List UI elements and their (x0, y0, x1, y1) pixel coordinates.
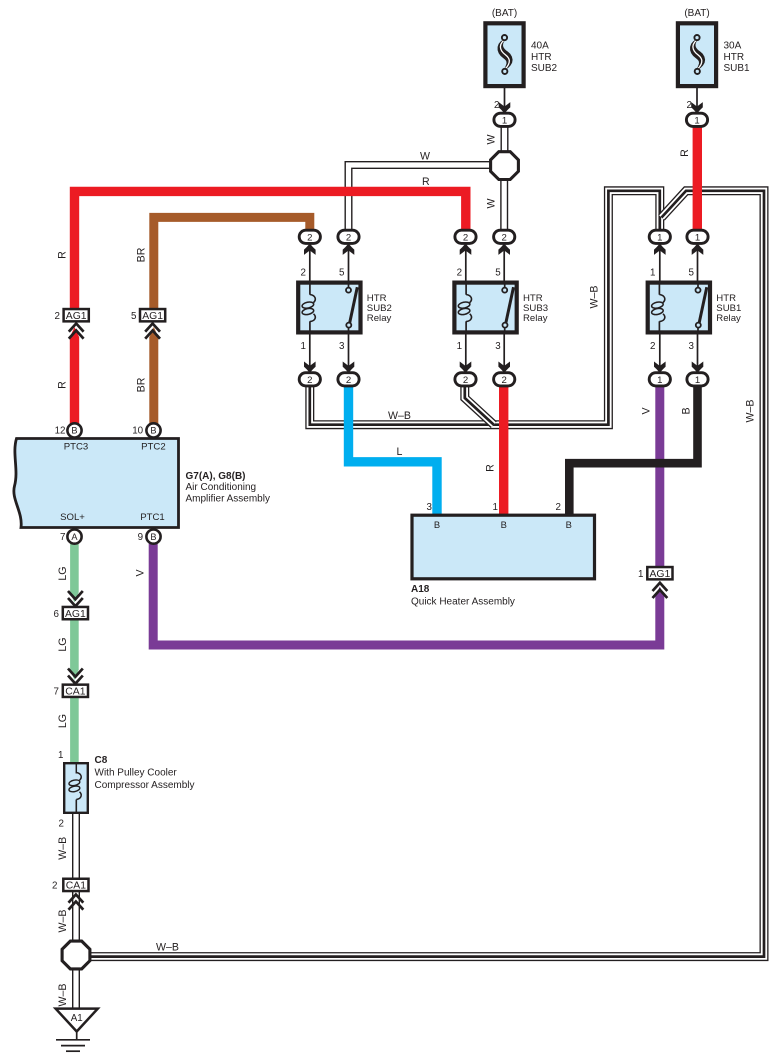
svg-text:W–B: W–B (745, 400, 757, 423)
relay SUB3 pin lead bottom (503, 334, 505, 373)
relay SUB3 pin lead top (503, 243, 505, 281)
svg-text:Amplifier Assembly: Amplifier Assembly (186, 494, 270, 505)
svg-text:CA1: CA1 (65, 687, 85, 698)
connector CA1 pin 2 (52, 879, 88, 892)
A/C amplifier assembly G7/G8 box (14, 439, 179, 528)
svg-text:W–B: W–B (57, 910, 69, 933)
svg-text:W–B: W–B (388, 410, 411, 422)
arrow relay SUB1 pin1 (655, 244, 666, 254)
svg-text:1: 1 (695, 232, 700, 243)
svg-text:W–B: W–B (156, 942, 179, 954)
arrow relay SUB3 pin5 (499, 244, 510, 254)
svg-text:SUB1: SUB1 (724, 63, 751, 74)
svg-text:1: 1 (694, 115, 699, 126)
svg-text:2: 2 (300, 267, 305, 278)
wire LG AG1 to CA1 connector (70, 619, 79, 670)
svg-text:PTC3: PTC3 (64, 442, 89, 453)
amplifier pin 12 (B) (67, 423, 81, 437)
connector AG1 pin 2 (55, 309, 89, 322)
chevron AG1 pin 5 (145, 324, 160, 339)
junction octagon ground (W-B) (62, 941, 90, 969)
svg-text:2: 2 (650, 341, 655, 352)
chevron CA1 pin 2 (69, 895, 84, 910)
svg-text:R: R (57, 381, 69, 389)
connector above relay SUB1 pin1 (649, 230, 670, 243)
svg-text:1: 1 (638, 569, 643, 580)
relay SUB1 pin lead bottom (697, 334, 699, 373)
svg-text:1: 1 (493, 502, 498, 513)
wire BR AG1 to relay SUB2 pin 2 (154, 217, 310, 309)
svg-text:Air Conditioning: Air Conditioning (186, 482, 257, 493)
svg-text:2: 2 (346, 232, 351, 243)
wire W-B compressor C8 to CA1 (72, 812, 80, 879)
arrow into fuse SUB2 connector (499, 103, 510, 113)
svg-text:A1: A1 (71, 1013, 83, 1024)
svg-text:AG1: AG1 (65, 609, 86, 620)
relay HTR SUB3 (454, 283, 516, 333)
connector below relay SUB3 pin3 (494, 373, 515, 386)
arrow relay SUB2 pin5 (343, 244, 354, 254)
chevron CA1 pin 7 (68, 669, 83, 684)
svg-text:1: 1 (695, 375, 700, 386)
svg-text:G7(A), G8(B): G7(A), G8(B) (186, 471, 246, 482)
relay SUB1 pin lead bottom (659, 334, 661, 373)
svg-text:10: 10 (132, 426, 143, 437)
wire W junction left branch to relay SUB2 pin 5 connector (349, 165, 493, 232)
wire L relay SUB2 pin 3 to quick heater pin 3 (349, 383, 438, 515)
amplifier pin 7 (A) (67, 530, 81, 544)
svg-text:3: 3 (495, 341, 501, 352)
fuse 30A HTR SUB1 (678, 23, 716, 86)
svg-text:R: R (422, 176, 430, 188)
connector 1 below fuse SUB2 (494, 113, 515, 126)
svg-text:(BAT): (BAT) (492, 8, 517, 19)
wire W junction down to relay SUB3 pin 5 connector (500, 178, 508, 232)
connector below relay SUB1 pin2 (649, 373, 670, 386)
wire LG CA1 to compressor C8 (70, 697, 79, 763)
svg-text:AG1: AG1 (66, 311, 87, 322)
relay SUB2 pin lead bottom (348, 334, 350, 373)
connector above relay SUB2 pin2 (299, 230, 320, 243)
arrow relay SUB3 pin3 bottom (499, 363, 510, 373)
svg-text:With Pulley Cooler: With Pulley Cooler (95, 768, 178, 779)
svg-text:(BAT): (BAT) (684, 8, 709, 19)
connector above relay SUB3 pin2 (455, 230, 476, 243)
svg-text:SUB2: SUB2 (531, 63, 558, 74)
compressor C8 box with coil (64, 762, 88, 813)
svg-text:2: 2 (502, 232, 507, 243)
relay HTR SUB1 (648, 283, 710, 333)
chevron AG1 pin 2 (69, 324, 84, 339)
wire W-B CA1 to ground junction (72, 891, 80, 943)
amplifier pin 9 (B) (146, 530, 160, 544)
svg-text:BR: BR (136, 247, 148, 262)
connector AG1 pin 1 (638, 567, 672, 580)
connector AG1 pin 5 (131, 309, 165, 322)
svg-text:40A: 40A (531, 41, 549, 52)
svg-text:B: B (681, 407, 693, 414)
svg-text:L: L (397, 446, 403, 458)
svg-text:B: B (501, 519, 507, 530)
wire W fuse SUB2 to junction (501, 126, 509, 153)
svg-text:7: 7 (54, 687, 59, 698)
svg-text:12: 12 (55, 426, 66, 437)
connector above relay SUB2 pin5 (338, 230, 359, 243)
connector above relay SUB3 pin5 (494, 230, 515, 243)
svg-text:1: 1 (300, 341, 305, 352)
connector below relay SUB1 pin3 (687, 373, 708, 386)
arrow relay SUB3 pin1 bottom (460, 363, 471, 373)
svg-text:2: 2 (52, 881, 57, 892)
svg-text:6: 6 (54, 609, 60, 620)
svg-text:V: V (641, 407, 653, 415)
svg-text:1: 1 (657, 375, 662, 386)
svg-text:B: B (150, 426, 156, 436)
svg-text:2: 2 (687, 100, 692, 111)
wire V AG1 to relay SUB1 pin 2 (655, 383, 664, 568)
relay SUB2 pin lead bottom (309, 334, 311, 373)
svg-text:Compressor Assembly: Compressor Assembly (95, 780, 195, 791)
svg-text:A: A (71, 532, 78, 542)
fuse SUB1 lead (696, 88, 698, 114)
ground A1 triangle (56, 1009, 98, 1032)
svg-text:5: 5 (495, 267, 501, 278)
quick heater assembly A18 box (412, 515, 595, 579)
arrow into fuse SUB1 connector (692, 103, 703, 113)
svg-text:3: 3 (689, 341, 695, 352)
svg-text:W–B: W–B (589, 286, 601, 309)
svg-text:30A: 30A (724, 41, 742, 52)
relay SUB3 pin lead top (465, 243, 467, 281)
svg-text:R: R (57, 251, 69, 259)
svg-text:V: V (135, 569, 147, 577)
arrow relay SUB2 pin2 (305, 244, 316, 254)
svg-text:2: 2 (502, 375, 507, 386)
svg-text:1: 1 (457, 341, 462, 352)
chevron AG1 pin 1 (653, 583, 668, 598)
svg-text:7: 7 (60, 532, 65, 543)
svg-text:2: 2 (463, 232, 468, 243)
connector 1 below fuse SUB1 (686, 113, 707, 126)
connector AG1 pin 6 (54, 607, 88, 620)
svg-text:1: 1 (657, 232, 662, 243)
svg-text:3: 3 (427, 502, 433, 513)
svg-text:B: B (71, 426, 77, 436)
fuse SUB2 lead (504, 88, 506, 114)
wire R AG1 to relay SUB3 pin 2 (75, 191, 466, 309)
connector below relay SUB3 pin1 (455, 373, 476, 386)
junction octagon top (W) (491, 152, 519, 180)
svg-text:2: 2 (556, 502, 561, 513)
svg-text:2: 2 (346, 375, 351, 386)
svg-text:LG: LG (57, 714, 69, 728)
arrow relay SUB1 pin5 (692, 244, 703, 254)
svg-text:Relay: Relay (367, 313, 392, 324)
svg-text:1: 1 (502, 115, 507, 126)
wire R relay SUB3 pin 3 to quick heater pin 1 (499, 383, 508, 515)
svg-text:R: R (679, 149, 691, 157)
connector above relay SUB1 pin5 (687, 230, 708, 243)
wire W-B relay SUB3 pin1 branch (465, 383, 494, 425)
arrow relay SUB1 pin2 bottom (655, 363, 666, 373)
svg-text:2: 2 (59, 819, 64, 830)
wire BR A/C amplifier PTC2 to AG1 connector (149, 337, 158, 427)
connector CA1 pin 7 (54, 685, 88, 698)
svg-text:W: W (486, 199, 498, 209)
svg-text:AG1: AG1 (650, 569, 671, 580)
svg-text:Quick Heater Assembly: Quick Heater Assembly (411, 597, 515, 608)
relay SUB2 pin lead top (309, 243, 311, 281)
svg-text:Relay: Relay (716, 313, 741, 324)
svg-text:3: 3 (339, 341, 345, 352)
wire LG SOL+ to AG1 connector (70, 543, 79, 593)
svg-text:5: 5 (339, 267, 345, 278)
relay SUB1 pin lead top (659, 243, 661, 281)
wire V A/C amplifier PTC1 to AG1 connector (153, 543, 660, 645)
chevron AG1 pin 6 (68, 591, 83, 606)
relay SUB1 pin lead top (697, 243, 699, 281)
svg-text:2: 2 (307, 232, 312, 243)
relay HTR SUB2 (298, 283, 360, 333)
svg-text:5: 5 (689, 267, 695, 278)
svg-text:CA1: CA1 (66, 881, 86, 892)
svg-text:BR: BR (136, 377, 148, 392)
relay SUB3 pin lead bottom (465, 334, 467, 373)
arrow relay SUB1 pin3 bottom (692, 363, 703, 373)
arrow relay SUB2 pin3 bottom (343, 363, 354, 373)
connector below relay SUB2 pin3 (338, 373, 359, 386)
relay SUB2 pin lead top (348, 243, 350, 281)
svg-text:2: 2 (463, 375, 468, 386)
svg-text:5: 5 (131, 311, 137, 322)
wire R A/C amplifier PTC3 to AG1 connector (70, 337, 79, 427)
svg-text:B: B (566, 519, 572, 530)
svg-text:C8: C8 (95, 755, 108, 766)
svg-text:PTC2: PTC2 (141, 442, 166, 453)
svg-text:9: 9 (138, 532, 143, 543)
svg-text:W: W (486, 135, 498, 145)
svg-text:A18: A18 (411, 584, 430, 595)
svg-text:HTR: HTR (724, 52, 745, 63)
wire W-B junction to ground A1 (72, 967, 80, 1009)
svg-text:SOL+: SOL+ (60, 512, 85, 523)
svg-text:LG: LG (57, 637, 69, 651)
svg-text:LG: LG (57, 566, 69, 580)
wire R fuse SUB1 down to relay SUB1 pin 5 (693, 125, 702, 232)
svg-text:B: B (434, 519, 440, 530)
svg-text:2: 2 (55, 311, 60, 322)
svg-text:B: B (150, 532, 156, 542)
wire W-B trunk: relay SUB2 pin1 to HTR SUB1 relay pin 1 (310, 191, 660, 425)
svg-text:2: 2 (307, 375, 312, 386)
svg-text:1: 1 (650, 267, 655, 278)
ground symbol (56, 1032, 90, 1052)
svg-text:HTR: HTR (531, 52, 552, 63)
svg-text:W–B: W–B (57, 837, 69, 860)
arrow relay SUB2 pin1 bottom (305, 363, 316, 373)
fuse 40A HTR SUB2 (485, 23, 523, 86)
svg-text:2: 2 (494, 100, 499, 111)
svg-text:1: 1 (58, 750, 63, 761)
svg-text:R: R (484, 464, 496, 472)
svg-text:2: 2 (457, 267, 462, 278)
svg-text:PTC1: PTC1 (140, 512, 165, 523)
wire W-B trunk branch to right edge and ground (89, 191, 764, 957)
arrow relay SUB3 pin2 (460, 244, 471, 254)
connector below relay SUB2 pin1 (299, 373, 320, 386)
svg-text:W: W (420, 151, 430, 163)
svg-text:W–B: W–B (57, 984, 69, 1007)
svg-text:AG1: AG1 (142, 311, 163, 322)
amplifier pin 10 (B) (146, 423, 160, 437)
svg-text:Relay: Relay (523, 313, 548, 324)
wire B relay SUB1 pin 3 to quick heater pin 2 (569, 383, 697, 515)
